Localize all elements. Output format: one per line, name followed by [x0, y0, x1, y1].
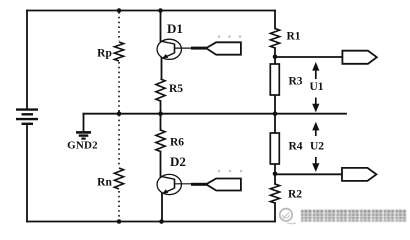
wire node to output 2	[275, 173, 342, 175]
wire R2 to bottom rail	[274, 203, 276, 222]
junction dot bottom rail dotted line	[117, 219, 122, 224]
resistor Rn	[114, 168, 123, 189]
wire top rail	[27, 10, 275, 12]
svg-text:R5: R5	[169, 83, 183, 95]
wire R3 to R4 through middle rail	[274, 95, 276, 133]
junction dot node R1 R3 output1	[273, 55, 278, 60]
junction dot middle rail dotted line	[117, 111, 122, 116]
transistor D1	[157, 39, 192, 59]
svg-text:R1: R1	[286, 31, 300, 43]
wire D1 collector to top rail	[160, 11, 162, 42]
svg-text:GND2: GND2	[67, 140, 98, 152]
junction dot top rail dotted line	[117, 8, 122, 13]
junction dot middle rail R5 R6	[158, 111, 163, 116]
resistor R1	[270, 29, 279, 49]
wire R6 to D2	[160, 152, 162, 178]
svg-text:D2: D2	[170, 154, 186, 169]
connector flag output 2	[342, 168, 376, 181]
wire dotted sense line middle	[118, 62, 120, 167]
connector flag output 1	[342, 51, 376, 64]
wire D1 emitter to R5	[161, 58, 163, 79]
resistor R5	[156, 79, 165, 101]
svg-text:Rn: Rn	[97, 177, 112, 189]
wire node to output 1	[275, 56, 342, 58]
watermark text	[301, 210, 406, 222]
wire bottom rail	[27, 221, 275, 223]
wire R1 to node	[274, 48, 276, 64]
svg-text:R2: R2	[288, 189, 302, 201]
ground GND2	[76, 132, 91, 138]
wire D2 emitter to bottom rail	[161, 193, 163, 221]
junction dot bottom rail D2 branch	[159, 219, 164, 224]
wire dotted sense line lower	[118, 191, 120, 221]
connector flag D2	[191, 183, 207, 186]
watermark logo	[280, 209, 296, 224]
resistor R3	[270, 64, 279, 95]
junction dot top rail D1 branch	[158, 8, 163, 13]
svg-text:U1: U1	[309, 81, 323, 93]
resistor R2	[270, 184, 279, 203]
wire dotted sense line upper	[118, 12, 120, 41]
U2 voltage arrows	[312, 122, 319, 172]
transistor D2	[157, 174, 192, 194]
watermark artifact dots above D2 flag	[218, 170, 243, 173]
battery B1	[16, 110, 38, 124]
resistor R6	[156, 130, 165, 152]
svg-text:R3: R3	[288, 76, 302, 88]
wire left vertical lower	[26, 125, 28, 222]
svg-text:R4: R4	[288, 141, 302, 153]
svg-text:R6: R6	[170, 137, 184, 149]
svg-text:U2: U2	[310, 141, 324, 153]
wire middle rail	[84, 113, 347, 115]
wire R5 to middle rail	[160, 101, 162, 114]
wire middle rail to R6	[160, 114, 162, 130]
wire R4 to R2	[274, 164, 276, 184]
resistor Rp	[114, 42, 123, 61]
U1 voltage arrows	[312, 62, 319, 112]
resistor R4	[270, 133, 279, 164]
wire GND2 stub	[83, 114, 85, 132]
wire top rail to R1	[274, 11, 276, 29]
wire left vertical upper	[26, 11, 28, 109]
watermark artifact dots above D1 flag	[218, 35, 242, 38]
connector flag D1	[191, 47, 207, 50]
svg-text:Rp: Rp	[97, 48, 112, 60]
junction dot node R4 R2 output2	[273, 172, 278, 177]
junction dot middle rail R3 R4	[273, 111, 278, 116]
svg-text:D1: D1	[167, 21, 183, 36]
